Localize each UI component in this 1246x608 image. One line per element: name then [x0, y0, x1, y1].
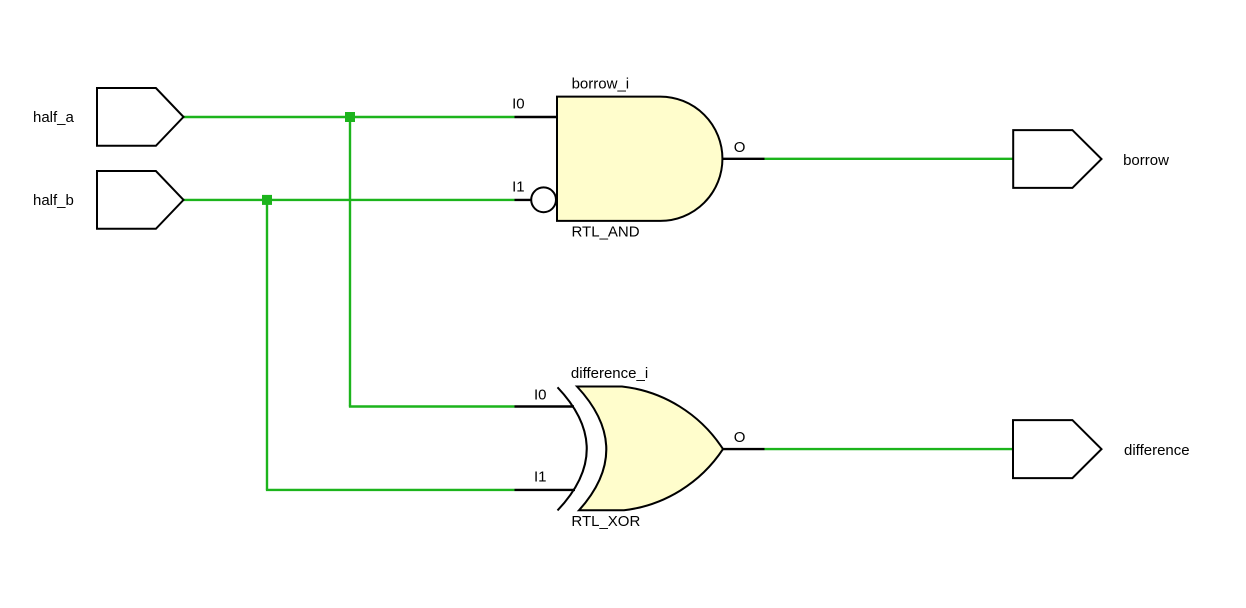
- svg-text:half_b: half_b: [33, 192, 74, 209]
- pin stub AND O: [723, 158, 765, 160]
- wire horizontal to XOR I0: [349, 405, 515, 407]
- inverter bubble on AND I1: [531, 187, 556, 212]
- pin stub XOR O: [723, 448, 765, 450]
- input port half_a: [97, 88, 184, 146]
- pin stub AND I1: [515, 199, 532, 201]
- svg-text:I1: I1: [512, 179, 525, 196]
- pin stub AND I0: [515, 116, 559, 118]
- xor-gate difference_i body: [577, 387, 723, 511]
- wire junction vertical half_a to XOR I0: [349, 117, 351, 407]
- svg-text:borrow: borrow: [1123, 152, 1169, 169]
- output port difference: [1013, 420, 1102, 478]
- svg-text:half_a: half_a: [33, 109, 75, 126]
- svg-text:RTL_XOR: RTL_XOR: [571, 513, 640, 530]
- node junction on half_a net: [345, 112, 355, 122]
- pin stub XOR I1: [515, 489, 576, 491]
- wire AND O to borrow port: [765, 158, 1015, 160]
- and-gate borrow_i body: [557, 97, 722, 221]
- output port borrow: [1013, 130, 1101, 188]
- pin stub XOR I0: [515, 405, 575, 407]
- svg-text:borrow_i: borrow_i: [572, 75, 630, 92]
- svg-text:I1: I1: [534, 469, 547, 486]
- svg-text:O: O: [734, 139, 746, 156]
- svg-text:I0: I0: [512, 96, 525, 113]
- wire junction vertical half_b to XOR I1: [266, 200, 268, 490]
- xor-gate difference_i input arc: [558, 387, 587, 510]
- wire half_b to AND I1: [184, 199, 515, 201]
- svg-text:difference: difference: [1124, 442, 1190, 459]
- node junction on half_b net: [262, 195, 272, 205]
- wire horizontal to XOR I1: [266, 489, 515, 491]
- svg-text:I0: I0: [534, 387, 547, 404]
- wire half_a to AND I0: [184, 116, 515, 118]
- wire XOR O to difference port: [765, 448, 1015, 450]
- svg-text:difference_i: difference_i: [571, 365, 648, 382]
- input port half_b: [97, 171, 184, 229]
- svg-text:RTL_AND: RTL_AND: [572, 224, 640, 241]
- svg-text:O: O: [734, 429, 746, 446]
